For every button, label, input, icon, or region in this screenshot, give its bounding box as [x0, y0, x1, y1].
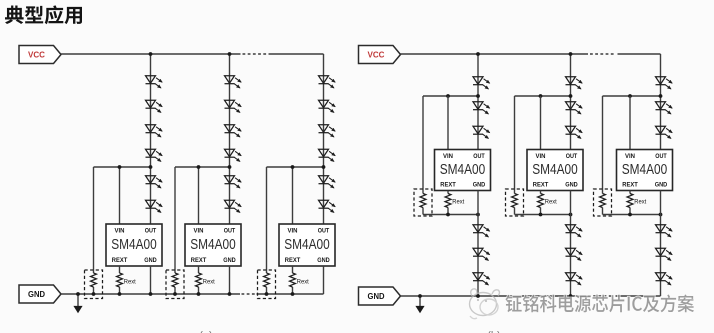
junction: VIN tap column 3 (b)	[628, 94, 632, 98]
junction: bypass resistor on rail column 3 (a)	[265, 292, 269, 296]
LED string 3 lower diode 2 (b)	[656, 248, 673, 260]
LED string 2 diode 1 (a)	[225, 76, 242, 88]
junction: node line on GND string column 1 (b)	[476, 213, 480, 217]
junction: lower string 1 on bottom rail (b)	[476, 294, 480, 298]
wire: REXT pin lead column 1 (b)	[447, 191, 449, 215]
wire: tap line column 2 (b)	[515, 95, 571, 97]
LED string 1 diode 1 (a)	[146, 76, 163, 88]
dashed optional box column 3 (b)	[594, 189, 612, 216]
LED string 3 diode 2 (a)	[319, 100, 336, 112]
junction: GND pin on rail column 2 (a)	[228, 292, 232, 296]
resistor Rext column 2 (b)	[538, 194, 544, 208]
junction: Rext on rail column 2 (a)	[197, 292, 201, 296]
wire: VIN feed column 3 (a)	[292, 167, 294, 224]
op chip U1 SM4A00 (b)	[435, 150, 491, 191]
junction: tap on LED string 3 (a)	[322, 165, 326, 169]
junction: bypass resistor on rail column 1 (a)	[92, 292, 96, 296]
junction: VIN tap column 2 (b)	[539, 94, 543, 98]
junction: Rext on node line column 3 (b)	[628, 213, 632, 217]
wire: GND pin / lower LED string 3 (b)	[660, 191, 662, 297]
LED string 3 lower diode 3 (b)	[656, 273, 673, 285]
label Rext column 2 (b)	[545, 199, 557, 206]
wire: bypass branch column 1 (b)	[423, 96, 478, 215]
LED string 2 lower diode 3 (b)	[566, 273, 583, 285]
resistor: bypass Rs column 2 (a)	[172, 273, 178, 287]
dashed optional box column 3 (a)	[258, 270, 276, 299]
junction: VIN tap column 1 (a)	[118, 165, 122, 169]
label Rext column 3 (b)	[634, 199, 646, 206]
VCC flag (circuit a)	[19, 46, 61, 64]
svg-text:GND: GND	[655, 181, 668, 188]
junction: bypass resistor on rail column 2 (a)	[173, 292, 177, 296]
junction: string 1 on top rail (b)	[476, 52, 480, 56]
svg-text:Rext: Rext	[452, 199, 464, 206]
dashed optional box column 1 (a)	[85, 270, 103, 299]
wire: REXT pin lead column 2 (a)	[198, 266, 200, 294]
wire: VIN feed column 1 (b)	[447, 96, 449, 150]
LED string 3 upper diode 3 (b)	[656, 126, 673, 138]
LED string 1 diode 6 (a)	[146, 200, 163, 212]
wire: GND pin lead column 1 (a)	[150, 266, 152, 294]
GND flag (circuit b)	[359, 287, 401, 305]
junction: Rext on rail column 3 (a)	[291, 292, 295, 296]
LED string 2 diode 2 (a)	[225, 100, 242, 112]
svg-text:OUT: OUT	[473, 153, 485, 160]
svg-text:VIN: VIN	[443, 153, 453, 160]
junction: string 2 on top rail (b)	[569, 52, 573, 56]
wire: top rail dashed continuation (b)	[590, 53, 616, 55]
svg-text:OUT: OUT	[655, 153, 667, 160]
label Rext column 1 (a)	[124, 278, 136, 285]
LED string 2 diode 4 (a)	[225, 149, 242, 161]
resistor Rext column 1 (b)	[445, 194, 451, 208]
svg-text:REXT: REXT	[533, 181, 549, 188]
label Rext column 1 (b)	[452, 199, 464, 206]
LED string 3 diode 6 (a)	[319, 200, 336, 212]
LED string 2 upper diode 2 (b)	[566, 102, 583, 114]
junction: tap on LED string 2 (a)	[228, 165, 232, 169]
svg-text:OUT: OUT	[566, 153, 578, 160]
svg-text:Rext: Rext	[203, 278, 215, 285]
svg-text:GND: GND	[317, 257, 330, 264]
wire: bypass branch column 2 (a)	[174, 167, 176, 294]
dashed optional box column 2 (a)	[166, 270, 184, 299]
ground arrow symbol (a)	[73, 294, 82, 313]
junction: ground arrow on rail (a)	[76, 292, 80, 296]
svg-text:GND: GND	[28, 290, 45, 299]
wire: top rail segment to string 3 (a)	[269, 53, 324, 55]
wire: GND bottom rail segment (b)	[401, 295, 587, 297]
junction: node line on GND string column 3 (b)	[659, 213, 663, 217]
junction: string 1 on top rail (a)	[149, 52, 153, 56]
svg-text:Rext: Rext	[124, 278, 136, 285]
resistor: bypass Rs column 3 (b)	[600, 194, 606, 208]
svg-text:GND: GND	[368, 292, 385, 301]
wire: tap line column 1 (b)	[423, 95, 478, 97]
svg-text:Rext: Rext	[545, 199, 557, 206]
LED string 1 lower diode 2 (b)	[473, 248, 490, 260]
svg-text:OUT: OUT	[224, 228, 236, 235]
junction: VIN tap column 1 (b)	[446, 94, 450, 98]
wire: top rail segment to string 3 (b)	[618, 53, 661, 55]
svg-text:GND: GND	[473, 181, 486, 188]
resistor Rext column 3 (b)	[627, 194, 633, 208]
wire: VCC top rail segment (b)	[401, 53, 589, 55]
wire: mid-string tap line column 2 (a)	[175, 166, 230, 168]
svg-text:Rext: Rext	[297, 278, 309, 285]
wire: top rail dashed continuation (a)	[243, 53, 268, 55]
GND flag (circuit a)	[19, 285, 61, 303]
junction: string 2 on top rail (a)	[228, 52, 232, 56]
svg-text:VIN: VIN	[288, 228, 298, 235]
wire: mid-string tap line column 1 (a)	[94, 166, 151, 168]
op chip U2 SM4A00 (a)	[185, 224, 241, 266]
wire: bypass branch column 3 (a)	[266, 167, 268, 294]
svg-text:SM4A00: SM4A00	[440, 162, 486, 178]
LED string 2 upper diode 1 (b)	[566, 77, 583, 89]
resistor Rext column 1 (a)	[117, 273, 123, 287]
svg-text:SM4A00: SM4A00	[284, 237, 330, 253]
LED string 2 upper diode 3 (b)	[566, 126, 583, 138]
wire: upper LED string 1 vertical (b)	[477, 54, 479, 150]
wire: VIN feed column 1 (a)	[119, 167, 121, 224]
op chip U1 SM4A00 (a)	[106, 224, 162, 266]
wire: REXT pin lead column 3 (b)	[629, 191, 631, 215]
junction: tap on LED string 1 (b)	[476, 94, 480, 98]
wire: REXT pin lead column 3 (a)	[292, 266, 294, 294]
wire: GND pin / lower LED string 2 (b)	[570, 191, 572, 297]
LED string 2 diode 6 (a)	[225, 200, 242, 212]
svg-text:SM4A00: SM4A00	[190, 237, 236, 253]
wire: GND pin lead column 3 (a)	[323, 266, 325, 294]
wire: REXT pin lead column 1 (a)	[119, 266, 121, 294]
LED string 3 diode 4 (a)	[319, 149, 336, 161]
svg-text:VCC: VCC	[28, 50, 45, 59]
svg-text:REXT: REXT	[622, 181, 638, 188]
svg-text:VIN: VIN	[536, 153, 546, 160]
op chip U3 SM4A00 (b)	[617, 150, 673, 191]
svg-text:OUT: OUT	[145, 228, 157, 235]
title 典型应用	[5, 5, 82, 24]
wire: LED string 1 vertical (a)	[150, 54, 152, 224]
junction: ground arrow on rail (b)	[418, 294, 422, 298]
junction: VIN tap column 3 (a)	[291, 165, 295, 169]
svg-text:VCC: VCC	[368, 50, 385, 59]
resistor: bypass Rs column 2 (b)	[512, 194, 518, 208]
wire: LED string 3 vertical (a)	[323, 54, 325, 224]
junction: tap on LED string 3 (b)	[659, 94, 663, 98]
wire: GND bottom rail segment (a)	[61, 293, 240, 295]
op chip U2 SM4A00 (b)	[527, 150, 583, 191]
svg-text:SM4A00: SM4A00	[111, 237, 157, 253]
wire: bypass branch column 3 (b)	[603, 96, 661, 215]
svg-text:SM4A00: SM4A00	[622, 162, 668, 178]
LED string 1 lower diode 1 (b)	[473, 225, 490, 237]
LED string 1 diode 2 (a)	[146, 100, 163, 112]
junction: Rext on rail column 1 (a)	[118, 292, 122, 296]
wire: bottom rail dashed continuation (a)	[242, 293, 257, 295]
junction: Rext on node line column 2 (b)	[539, 213, 543, 217]
label Rext column 3 (a)	[297, 278, 309, 285]
dashed optional box column 1 (b)	[414, 189, 432, 216]
svg-text:SM4A00: SM4A00	[532, 162, 578, 178]
LED string 3 lower diode 1 (b)	[656, 225, 673, 237]
wire: bypass branch column 2 (b)	[515, 96, 571, 215]
LED string 2 diode 3 (a)	[225, 125, 242, 137]
wire: GND pin lead column 2 (a)	[229, 266, 231, 294]
junction: tap on LED string 1 (a)	[149, 165, 153, 169]
LED string 1 upper diode 3 (b)	[473, 126, 490, 138]
LED string 3 upper diode 2 (b)	[656, 102, 673, 114]
LED string 1 diode 5 (a)	[146, 176, 163, 188]
label Rext column 2 (a)	[203, 278, 215, 285]
LED string 1 upper diode 1 (b)	[473, 77, 490, 89]
junction: VIN tap column 2 (a)	[197, 165, 201, 169]
resistor: bypass Rs column 1 (a)	[91, 273, 97, 287]
wire: tap line column 3 (b)	[603, 95, 661, 97]
svg-text:REXT: REXT	[191, 257, 207, 264]
LED string 3 upper diode 1 (b)	[656, 77, 673, 89]
svg-text:REXT: REXT	[285, 257, 301, 264]
wire: bypass branch column 1 (a)	[93, 167, 95, 294]
wire: bottom rail segment 2 (a)	[257, 293, 324, 295]
wire: REXT pin lead column 2 (b)	[540, 191, 542, 215]
wire: GND pin / lower LED string 1 (b)	[477, 191, 479, 297]
LED string 3 diode 3 (a)	[319, 125, 336, 137]
junction: Rext on node line column 1 (b)	[446, 213, 450, 217]
wire: bottom rail dashed continuation (b)	[588, 295, 614, 297]
wire: upper LED string 2 vertical (b)	[570, 54, 572, 150]
resistor: bypass Rs column 1 (b)	[420, 194, 426, 208]
LED string 1 lower diode 3 (b)	[473, 273, 490, 285]
LED string 3 diode 1 (a)	[319, 76, 336, 88]
watermark text 钲铭科电源芯片IC及方案	[505, 294, 694, 312]
svg-text:Rext: Rext	[634, 199, 646, 206]
junction: GND pin on rail column 1 (a)	[149, 292, 153, 296]
svg-text:REXT: REXT	[440, 181, 456, 188]
resistor: bypass Rs column 3 (a)	[264, 273, 270, 287]
svg-text:GND: GND	[223, 257, 236, 264]
svg-text:VIN: VIN	[625, 153, 635, 160]
wire: VIN feed column 2 (a)	[198, 167, 200, 224]
LED string 1 upper diode 2 (b)	[473, 102, 490, 114]
junction: tap on LED string 2 (b)	[569, 94, 573, 98]
svg-text:OUT: OUT	[318, 228, 330, 235]
wire: VIN feed column 3 (b)	[629, 96, 631, 150]
wire: VCC top rail segment (a)	[61, 53, 241, 55]
VCC flag (circuit b)	[359, 46, 401, 64]
op chip U3 SM4A00 (a)	[279, 224, 335, 266]
svg-text:VIN: VIN	[115, 228, 125, 235]
svg-text:GND: GND	[144, 257, 157, 264]
wire: bottom rail segment 2 (b)	[616, 295, 661, 297]
LED string 1 diode 3 (a)	[146, 125, 163, 137]
LED string 1 diode 4 (a)	[146, 149, 163, 161]
svg-text:REXT: REXT	[112, 257, 128, 264]
wire: LED string 2 vertical (a)	[229, 54, 231, 224]
ground arrow symbol (b)	[415, 296, 424, 313]
LED string 2 lower diode 2 (b)	[566, 248, 583, 260]
wire: VIN feed column 2 (b)	[540, 96, 542, 150]
wire: upper LED string 3 vertical (b)	[660, 54, 662, 150]
svg-text:GND: GND	[565, 181, 578, 188]
wire: mid-string tap line column 3 (a)	[267, 166, 324, 168]
resistor Rext column 2 (a)	[196, 273, 202, 287]
watermark logo	[470, 289, 500, 319]
junction: lower string 2 on bottom rail (b)	[569, 294, 573, 298]
svg-text:VIN: VIN	[194, 228, 204, 235]
resistor Rext column 3 (a)	[290, 273, 296, 287]
LED string 2 diode 5 (a)	[225, 176, 242, 188]
dashed optional box column 2 (b)	[506, 189, 524, 216]
LED string 3 diode 5 (a)	[319, 176, 336, 188]
junction: node line on GND string column 2 (b)	[569, 213, 573, 217]
LED string 2 lower diode 1 (b)	[566, 225, 583, 237]
